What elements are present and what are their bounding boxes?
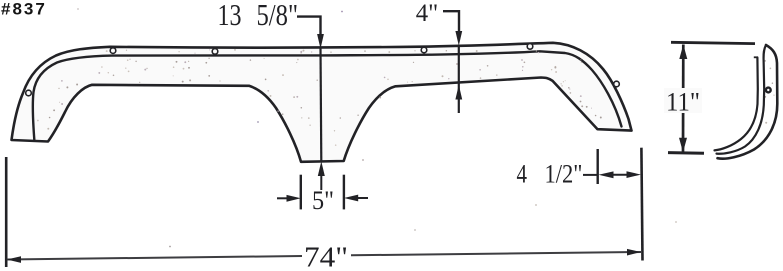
dimension 74 line left part bbox=[7, 256, 302, 260]
right extension line (4 1/2 and 74) bbox=[641, 148, 642, 261]
rivet hole 3 bbox=[212, 49, 218, 55]
dimension 5 left lead and arrow bbox=[277, 197, 292, 199]
left extension line of 74 bbox=[5, 157, 8, 267]
dimension 13 5/8 bottom arrow (up) bbox=[318, 161, 325, 176]
rivet hole 2 bbox=[110, 48, 116, 54]
dimension 11 down arrow bbox=[679, 138, 687, 152]
dimension 11 shaft bbox=[682, 45, 685, 153]
dimension 4 bottom arrow (up) bbox=[455, 85, 462, 100]
fender outer outline bbox=[12, 43, 632, 162]
dimension 11 bottom tick bbox=[668, 151, 704, 155]
side profile inner (left) edge bbox=[715, 58, 758, 151]
dimension 13 5/8 bottom stub bbox=[320, 176, 322, 190]
dimension 4 1/2 left tick bbox=[597, 149, 599, 184]
svg-text:11": 11" bbox=[666, 88, 700, 117]
dimension 74 right arrow bbox=[627, 249, 641, 256]
dimension 4 1/2 left arrow bbox=[599, 171, 614, 178]
dimension 5 inch right tick bbox=[343, 175, 345, 210]
side profile top step bbox=[754, 56, 758, 58]
dimension 5 inch left tick bbox=[300, 175, 302, 210]
rivet hole 5 bbox=[527, 44, 533, 50]
dimension 4 1/2 leader bbox=[583, 174, 598, 176]
dimension 11 inch top tick bbox=[671, 42, 755, 43]
dimension 4 shaft bbox=[458, 46, 460, 113]
svg-text:4": 4" bbox=[416, 0, 439, 27]
svg-text:5": 5" bbox=[312, 186, 334, 215]
dimension 13 5/8 top arrow (down) bbox=[317, 34, 324, 49]
side profile rivet hole bbox=[766, 88, 771, 93]
side profile outer (right) curve bbox=[718, 45, 778, 159]
dimension 74 left arrow bbox=[7, 256, 21, 263]
dimension 4 top arrow (down) bbox=[455, 31, 462, 46]
fender inner hem line bbox=[33, 51, 622, 139]
dimension 11 up arrow bbox=[679, 45, 687, 60]
dimension 5 right lead and arrow bbox=[355, 197, 368, 199]
svg-text:41/2": 41/2" bbox=[517, 159, 583, 188]
dimension 74 line right part bbox=[351, 252, 641, 255]
rivet hole right slope bbox=[614, 81, 620, 87]
dimension 13 5/8 leader line bbox=[297, 17, 321, 35]
dimension 11 label backing bbox=[664, 88, 702, 113]
dimension 4 1/2 right arrow bbox=[627, 171, 642, 178]
side profile middle curve bbox=[717, 45, 767, 154]
rivet hole 4 bbox=[421, 47, 427, 53]
rivet hole left slope bbox=[26, 90, 32, 96]
dimension 13 5/8 center line through fender bbox=[319, 48, 322, 161]
dimension 4 1/2 line bbox=[612, 174, 628, 176]
svg-text:#837: #837 bbox=[1, 0, 47, 19]
svg-text:74": 74" bbox=[304, 243, 348, 271]
dimension 4 leader line bbox=[443, 11, 459, 31]
svg-text:135/8": 135/8" bbox=[218, 0, 299, 32]
